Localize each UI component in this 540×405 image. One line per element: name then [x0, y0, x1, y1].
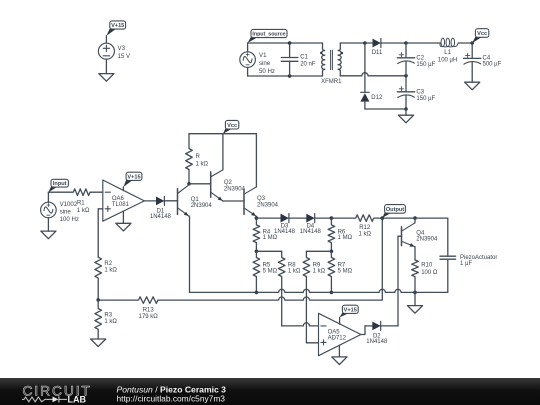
- wire secondary bottom: [340, 73, 406, 76]
- resistor R2: [95, 257, 118, 300]
- capacitor C1: [281, 43, 316, 76]
- svg-text:L1: L1: [444, 50, 451, 56]
- svg-text:1 kΩ: 1 kΩ: [77, 208, 90, 214]
- transistor Q1: [178, 184, 213, 293]
- svg-text:100 Ω: 100 Ω: [421, 270, 438, 276]
- svg-text:V3: V3: [118, 45, 126, 52]
- op-amp OA5 V+ pin: [339, 317, 341, 324]
- diode D2: [365, 321, 398, 344]
- svg-text:D11: D11: [372, 50, 383, 56]
- svg-text:1 MΩ: 1 MΩ: [338, 235, 353, 241]
- svg-text:500 µF: 500 µF: [483, 62, 502, 68]
- net flag Output: [382, 205, 405, 218]
- wire: [415, 217, 448, 219]
- node R10 ground: [413, 291, 417, 295]
- ground: [41, 231, 56, 239]
- wire ground bus: [190, 289, 448, 292]
- net flag V+15: [123, 172, 141, 187]
- op-amp OA6: [103, 180, 145, 221]
- net flag Vcc: [223, 120, 239, 133]
- op-amp OA6 V+ pin: [122, 187, 124, 191]
- net flag Input: [48, 179, 68, 192]
- svg-text:C1: C1: [300, 54, 308, 60]
- diode D1: [144, 196, 177, 219]
- net flag V+15: [340, 305, 359, 317]
- svg-text:R1: R1: [77, 201, 85, 207]
- svg-text:100 Hz: 100 Hz: [60, 216, 79, 223]
- transistor Q2: [211, 134, 246, 201]
- transistor Q3: [244, 134, 279, 218]
- svg-text:15 V: 15 V: [118, 53, 131, 60]
- node R7 ground: [330, 291, 334, 295]
- svg-text:1 kΩ: 1 kΩ: [288, 268, 301, 274]
- svg-text:50 Hz: 50 Hz: [259, 68, 275, 75]
- svg-text:R10: R10: [421, 262, 433, 268]
- ground: [407, 306, 422, 314]
- svg-text:5 MΩ: 5 MΩ: [263, 268, 278, 274]
- svg-text:Q2: Q2: [224, 180, 233, 186]
- svg-text:2N3904: 2N3904: [416, 236, 438, 242]
- svg-text:1N4148: 1N4148: [150, 214, 172, 220]
- node C2 top: [404, 41, 408, 45]
- node R2-R3-R13: [96, 298, 100, 302]
- resistor R4: [253, 218, 278, 251]
- svg-text:V1002: V1002: [60, 201, 78, 208]
- ground: [91, 339, 106, 347]
- wire secondary top: [340, 42, 365, 44]
- svg-text:2N3904: 2N3904: [257, 202, 279, 208]
- node C1 bottom: [288, 74, 292, 78]
- svg-text:R13: R13: [143, 308, 155, 314]
- footer banner: [0, 378, 540, 405]
- resistor R10: [412, 260, 438, 292]
- svg-text:R: R: [196, 154, 201, 160]
- node R-Q1-Q2: [187, 182, 191, 186]
- svg-text:1 kΩ: 1 kΩ: [313, 268, 326, 274]
- node D4-R6-R12: [330, 216, 334, 220]
- ground: [99, 74, 114, 82]
- wire: [247, 43, 249, 76]
- svg-text:D12: D12: [371, 95, 383, 101]
- wire feedback: [158, 218, 382, 300]
- resistor R1: [48, 189, 102, 214]
- svg-text:Vcc: Vcc: [227, 123, 237, 129]
- resistor R13: [98, 297, 158, 320]
- wire Q2 base: [189, 183, 211, 185]
- node C1 top: [288, 41, 292, 45]
- svg-text:1 µF: 1 µF: [460, 261, 472, 267]
- svg-text:Q3: Q3: [257, 196, 266, 202]
- svg-text:Q1: Q1: [191, 197, 200, 203]
- node R6-R7: [330, 250, 334, 254]
- wire Q1 base: [164, 200, 177, 202]
- net flag Vcc: [472, 29, 489, 43]
- svg-text:V1: V1: [259, 52, 267, 59]
- svg-text:Input: Input: [53, 181, 67, 187]
- ground: [332, 357, 347, 365]
- wire bottom rail primary: [248, 75, 323, 77]
- resistor R6: [328, 218, 353, 251]
- ground: [398, 115, 413, 123]
- svg-text:1 kΩ: 1 kΩ: [196, 161, 209, 167]
- node Output: [381, 216, 385, 220]
- inductor L1: [437, 38, 461, 63]
- svg-text:LAB: LAB: [68, 394, 87, 404]
- wire: [461, 42, 472, 44]
- wire top rail secondary: [406, 42, 437, 44]
- svg-text:1N4148: 1N4148: [274, 229, 296, 235]
- capacitor C4: [464, 43, 502, 82]
- net flag Input_source: [248, 29, 287, 43]
- capacitor PiezoActuator: [440, 218, 497, 292]
- op-amp OA6 ground pin: [122, 211, 124, 223]
- wire: [105, 59, 107, 73]
- svg-text:2N3904: 2N3904: [191, 203, 213, 209]
- wire bottom: [365, 109, 406, 115]
- svg-text:179 kΩ: 179 kΩ: [139, 314, 159, 320]
- svg-text:Output: Output: [386, 207, 404, 213]
- svg-text:1 kΩ: 1 kΩ: [104, 319, 117, 325]
- svg-text:C4: C4: [483, 55, 491, 61]
- diode D12: [361, 43, 383, 109]
- wire OA5 + input: [306, 342, 318, 344]
- svg-text:R3: R3: [104, 312, 112, 318]
- svg-text:TL081: TL081: [112, 202, 130, 208]
- wire: [105, 36, 107, 44]
- wire Vcc rail: [189, 133, 256, 135]
- voltage source V3 net flag V+15: [106, 21, 125, 36]
- resistor R9: [303, 251, 326, 342]
- diode D4: [300, 214, 332, 235]
- resistor R5: [253, 251, 278, 292]
- wire: [414, 292, 416, 305]
- node C2-C3 mid: [404, 74, 408, 78]
- svg-text:V+15: V+15: [344, 307, 357, 313]
- svg-text:100 µH: 100 µH: [438, 57, 457, 63]
- transistor Q4: [402, 218, 438, 260]
- svg-text:Input_source: Input_source: [252, 32, 285, 38]
- resistor R8: [278, 251, 301, 326]
- op-amp OA5: [319, 313, 361, 355]
- node C3 bottom: [404, 107, 408, 111]
- svg-text:150 µF: 150 µF: [416, 62, 435, 68]
- op-amp OA5 ground pin: [338, 345, 340, 357]
- resistor R: [186, 134, 209, 184]
- wire top rail primary: [248, 42, 323, 44]
- svg-text:Vcc: Vcc: [477, 31, 487, 37]
- resistor R7: [328, 251, 353, 292]
- capacitor C2: [397, 43, 435, 76]
- node C4 top: [470, 41, 474, 45]
- node R5 ground: [255, 291, 259, 295]
- diode D3: [256, 214, 306, 235]
- svg-text:sine: sine: [259, 60, 271, 67]
- svg-text:C3: C3: [416, 90, 424, 96]
- resistor R3: [95, 300, 118, 339]
- node R4-R5: [255, 250, 259, 254]
- svg-text:20 nF: 20 nF: [300, 61, 316, 67]
- voltage source V1002: [41, 201, 79, 223]
- resistor R12: [331, 215, 382, 238]
- svg-text:2N3904: 2N3904: [224, 187, 246, 193]
- svg-text:1 MΩ: 1 MΩ: [263, 235, 278, 241]
- svg-text:5 MΩ: 5 MΩ: [338, 269, 353, 275]
- wire Q4 base: [398, 236, 402, 326]
- svg-text:150 µF: 150 µF: [416, 96, 435, 102]
- svg-text:1N4148: 1N4148: [366, 339, 388, 345]
- node Q4 collector: [413, 216, 417, 220]
- svg-text:1 kΩ: 1 kΩ: [104, 268, 117, 274]
- diode D11: [365, 39, 406, 57]
- svg-text:V+15: V+15: [127, 174, 140, 180]
- wire OA5 output: [361, 326, 365, 335]
- wire op-amp + input: [98, 209, 103, 257]
- svg-text:1N4148: 1N4148: [300, 229, 322, 235]
- wire: [306, 250, 331, 252]
- svg-text:AD712: AD712: [328, 336, 347, 342]
- wire: [47, 192, 49, 231]
- node Q3 emitter: [255, 216, 259, 220]
- voltage source V1: [240, 52, 275, 75]
- svg-text:PiezoActuator: PiezoActuator: [460, 255, 497, 261]
- svg-text:XFMR1: XFMR1: [321, 79, 342, 85]
- transformer XFMR1: [320, 43, 343, 85]
- voltage source V3: [98, 43, 131, 60]
- svg-text:V+15: V+15: [111, 23, 124, 29]
- svg-text:C2: C2: [416, 56, 424, 62]
- wire OA5 - input: [282, 323, 319, 326]
- svg-text:1 kΩ: 1 kΩ: [358, 231, 371, 237]
- wire: [382, 217, 415, 219]
- svg-text:sine: sine: [60, 209, 72, 216]
- svg-text:R12: R12: [359, 225, 371, 231]
- capacitor C3: [397, 76, 435, 109]
- svg-text:R2: R2: [104, 261, 112, 267]
- wire: [256, 250, 281, 252]
- ground: [116, 223, 131, 231]
- node D11-D12 junction: [363, 41, 367, 45]
- svg-text:http://circuitlab.com/c5ny7m3: http://circuitlab.com/c5ny7m3: [117, 393, 226, 403]
- ground: [465, 82, 480, 90]
